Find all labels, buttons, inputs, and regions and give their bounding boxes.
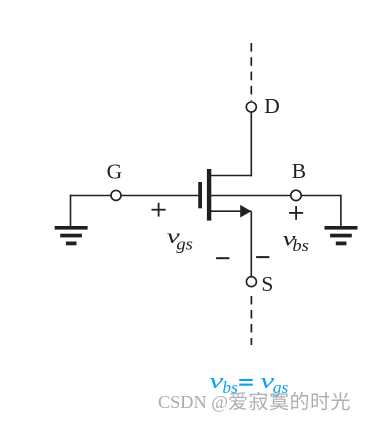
svg-text:B: B [292, 159, 306, 183]
ground symbol (right) [325, 226, 358, 245]
svg-text:G: G [107, 159, 123, 183]
wire: dashed drain extension above D [250, 43, 252, 101]
wire: source vertical segment [250, 211, 252, 277]
label + polarity of v_gs [152, 203, 166, 217]
wire: drain vertical segment [250, 112, 252, 176]
transistor Q1 channel bar [207, 169, 211, 221]
label - polarity of v_gs [216, 257, 229, 259]
svg-text:CSDN @: CSDN @ [158, 392, 228, 412]
label - polarity of v_bs [256, 256, 269, 258]
wire: drain horizontal segment to channel [209, 175, 252, 177]
wire: body horizontal segment [210, 195, 341, 197]
node S terminal circle [246, 277, 256, 287]
wire: right ground drop [340, 195, 342, 227]
transistor Q1 source arrow [240, 205, 251, 218]
svg-text:S: S [261, 272, 273, 296]
node B terminal circle [291, 190, 301, 200]
wire: dashed source extension below S [250, 296, 252, 345]
formula v_bs = v_gs (blue) [209, 368, 288, 397]
ground symbol (left) [55, 226, 88, 245]
node D terminal circle [246, 102, 256, 112]
svg-text:D: D [264, 94, 280, 118]
svg-text:gs: gs [176, 234, 193, 253]
wire: gate horizontal segment [70, 195, 199, 197]
watermark CJK characters [229, 392, 350, 411]
wire: left ground drop [70, 195, 72, 227]
label + polarity of v_bs [289, 206, 303, 220]
svg-text:bs: bs [292, 236, 309, 255]
transistor Q1 gate bar [198, 182, 202, 208]
wire: source horizontal segment [210, 210, 251, 212]
node G terminal circle [111, 190, 121, 200]
